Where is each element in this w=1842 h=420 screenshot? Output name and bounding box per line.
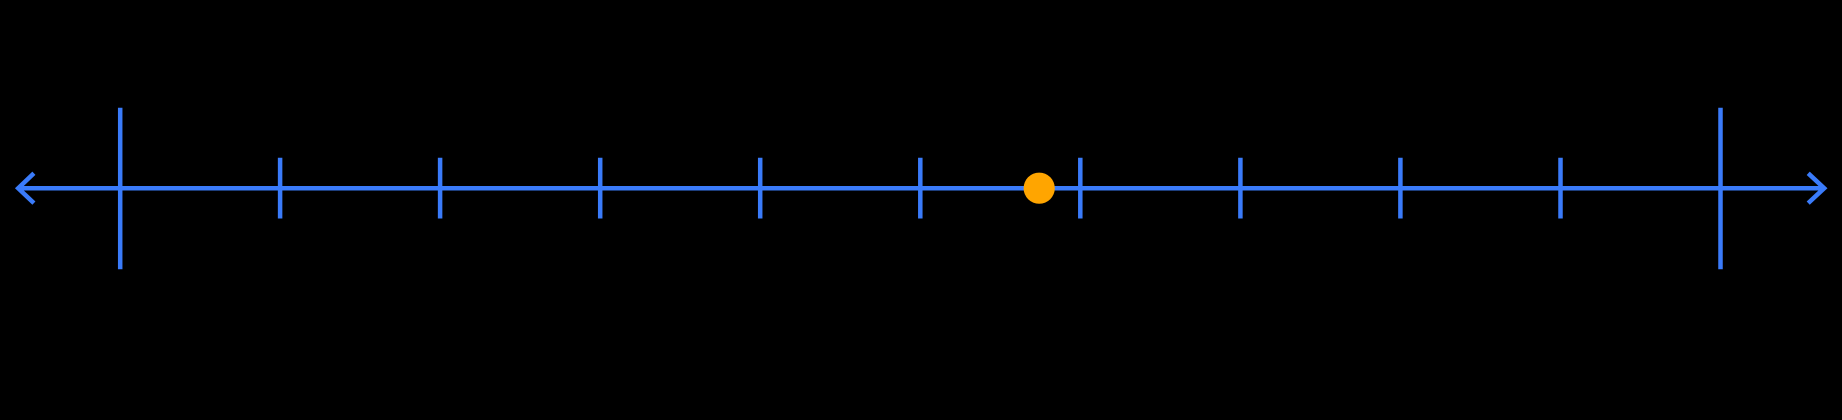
minor tick 4 — [758, 158, 763, 219]
major tick (left endpoint) — [118, 108, 123, 269]
major tick (right endpoint) — [1718, 108, 1723, 269]
minor tick 9 — [1558, 158, 1563, 219]
plotted point (orange dot) — [1024, 173, 1055, 204]
number line axis (main horizontal wire) — [20, 186, 1823, 191]
left arrowhead — [18, 173, 34, 203]
minor tick 3 — [598, 158, 603, 219]
minor tick 8 — [1398, 158, 1403, 219]
minor tick 1 — [278, 158, 283, 219]
minor tick 6 — [1078, 158, 1083, 219]
minor tick 7 — [1238, 158, 1243, 219]
minor tick 5 — [918, 158, 923, 219]
right arrowhead — [1808, 173, 1824, 203]
minor tick 2 — [438, 158, 443, 219]
